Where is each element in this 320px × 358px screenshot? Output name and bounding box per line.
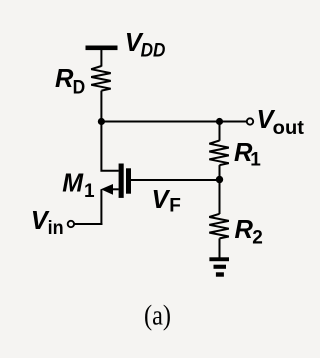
label R1 <box>234 139 261 171</box>
svg-text:R: R <box>235 216 254 244</box>
resistor R1 <box>209 141 229 166</box>
label R2 <box>235 216 263 248</box>
transistor M1 <box>101 122 131 198</box>
ground <box>209 257 229 276</box>
svg-text:D: D <box>73 78 86 99</box>
svg-text:DD: DD <box>141 41 166 62</box>
M1 gate bar <box>126 168 131 193</box>
svg-text:V: V <box>152 186 171 214</box>
wire output rail <box>101 121 246 123</box>
svg-text:2: 2 <box>252 227 263 248</box>
label RD <box>55 65 85 99</box>
power supply VDD bar <box>86 46 118 51</box>
wire R1 to VF node <box>219 165 221 179</box>
svg-text:1: 1 <box>84 181 95 202</box>
label Vin <box>31 207 64 239</box>
svg-text:(a): (a) <box>144 300 171 331</box>
wire VF node to gate of M1 <box>131 179 220 181</box>
resistor R2 <box>209 214 229 239</box>
wire R2 to ground <box>219 238 221 258</box>
label VDD <box>125 29 166 62</box>
node output junction <box>216 118 223 125</box>
terminal Vin open circle <box>68 221 74 227</box>
svg-text:M: M <box>62 170 84 198</box>
wire source of M1 down <box>100 189 102 225</box>
svg-text:in: in <box>48 218 64 239</box>
node drain junction <box>98 118 105 125</box>
wire VDD bar to RD <box>100 50 102 67</box>
svg-text:1: 1 <box>250 150 261 171</box>
svg-text:F: F <box>169 196 181 217</box>
wire RD to drain node <box>100 91 102 122</box>
wire Vout node to R1 <box>219 122 221 141</box>
label Vout <box>257 106 305 139</box>
M1 source wire with arrow <box>111 188 119 190</box>
svg-text:R: R <box>55 65 74 93</box>
M1 channel bar <box>119 164 124 198</box>
resistor RD <box>91 66 111 91</box>
node VF junction <box>216 176 223 183</box>
wire Vin to source <box>74 223 102 225</box>
M1 drain wire <box>101 122 118 171</box>
label VF <box>152 186 181 216</box>
terminal Vout open circle <box>247 118 253 124</box>
label M1 <box>62 170 95 203</box>
svg-text:out: out <box>273 118 305 139</box>
wire VF node to R2 <box>219 180 221 215</box>
